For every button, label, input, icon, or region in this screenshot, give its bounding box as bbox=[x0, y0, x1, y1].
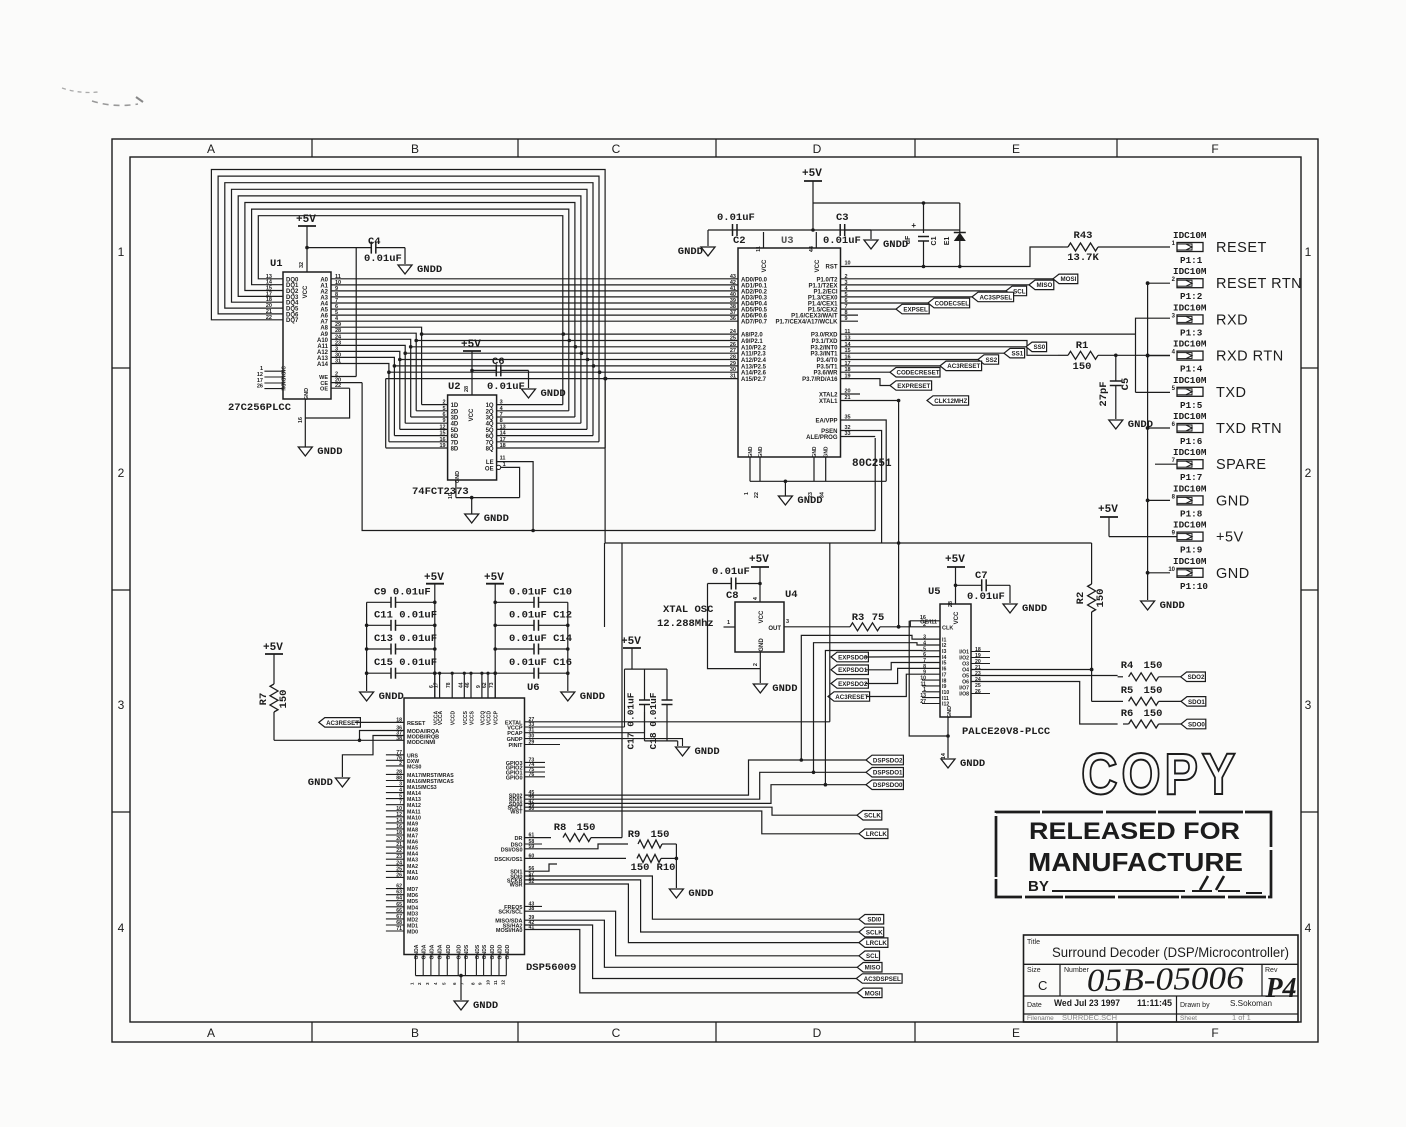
svg-text:7D: 7D bbox=[451, 440, 459, 446]
svg-text:BY: BY bbox=[1028, 878, 1049, 895]
svg-text:SDI0: SDI0 bbox=[867, 917, 881, 924]
svg-text:150: 150 bbox=[1144, 660, 1163, 672]
svg-text:LE: LE bbox=[486, 460, 494, 466]
pld U5 PALCE20V8-PLCC body bbox=[928, 586, 1051, 738]
svg-text:OE: OE bbox=[320, 387, 328, 393]
U1 ground pin wire bbox=[298, 388, 310, 447]
ground GNDD at IDC rail bbox=[1141, 600, 1185, 612]
svg-text:3D: 3D bbox=[451, 416, 459, 422]
svg-text:28: 28 bbox=[948, 601, 954, 607]
svg-text:R5: R5 bbox=[1121, 685, 1134, 697]
svg-text:2: 2 bbox=[1305, 466, 1312, 480]
svg-text:1Q: 1Q bbox=[486, 403, 494, 409]
svg-text:150: 150 bbox=[1144, 708, 1163, 720]
svg-text:19: 19 bbox=[439, 443, 445, 449]
svg-text:17: 17 bbox=[434, 682, 440, 688]
svg-text:R4: R4 bbox=[1121, 660, 1134, 672]
svg-text:P3.3/INT1: P3.3/INT1 bbox=[810, 352, 838, 358]
svg-text:150: 150 bbox=[651, 829, 670, 841]
svg-text:2: 2 bbox=[443, 400, 446, 406]
net label SCL bbox=[859, 951, 880, 961]
svg-text:SPARE: SPARE bbox=[1216, 457, 1267, 473]
capacitor C8 0.01uF bbox=[708, 566, 761, 669]
svg-text:AD6/P0.6: AD6/P0.6 bbox=[741, 314, 768, 320]
svg-text:VCC: VCC bbox=[762, 259, 768, 272]
svg-text:10: 10 bbox=[845, 261, 851, 267]
svg-text:VCC: VCC bbox=[469, 408, 475, 421]
svg-text:4D: 4D bbox=[451, 422, 459, 428]
svg-text:4: 4 bbox=[1305, 921, 1312, 935]
svg-text:C: C bbox=[612, 142, 621, 156]
svg-text:27: 27 bbox=[920, 699, 926, 705]
svg-text:75: 75 bbox=[872, 612, 885, 624]
svg-text:2: 2 bbox=[399, 761, 402, 767]
svg-text:5: 5 bbox=[399, 794, 402, 800]
svg-text:P3.1/TXD: P3.1/TXD bbox=[811, 339, 838, 345]
svg-text:I/O8: I/O8 bbox=[959, 692, 969, 698]
svg-text:64: 64 bbox=[396, 896, 402, 902]
svg-text:P3.7/RD/A16: P3.7/RD/A16 bbox=[802, 377, 838, 383]
svg-text:TXD: TXD bbox=[1216, 385, 1247, 401]
svg-text:05B-05006: 05B-05006 bbox=[1086, 959, 1244, 998]
resistor R8 150 bbox=[515, 543, 622, 842]
ground GNDD at C3 bbox=[864, 239, 908, 251]
capacitor C4 0.01uF bbox=[307, 236, 405, 265]
svg-text:14: 14 bbox=[500, 431, 507, 437]
svg-text:SURRDEC.SCH: SURRDEC.SCH bbox=[1062, 1013, 1117, 1022]
svg-text:GND: GND bbox=[748, 446, 754, 458]
svg-text:R43: R43 bbox=[1074, 230, 1093, 242]
svg-text:AD4/P0.4: AD4/P0.4 bbox=[741, 302, 768, 308]
svg-text:DSPSDO2: DSPSDO2 bbox=[873, 757, 903, 764]
svg-text:+5V: +5V bbox=[621, 636, 641, 648]
svg-text:MA5: MA5 bbox=[407, 846, 418, 852]
svg-text:VCCQ: VCCQ bbox=[480, 711, 486, 726]
svg-text:MOSI: MOSI bbox=[1060, 276, 1076, 283]
net label AC3RESET at U6 bbox=[319, 718, 404, 728]
svg-text:+5V: +5V bbox=[749, 554, 769, 566]
svg-text:3: 3 bbox=[500, 400, 503, 406]
U3 port3 pin labels bbox=[802, 329, 851, 383]
U6 VCC top pins bbox=[429, 672, 500, 726]
svg-text:AC3RESET: AC3RESET bbox=[835, 694, 868, 701]
svg-text:RESET: RESET bbox=[1216, 240, 1267, 256]
net label SDO1 bbox=[1181, 697, 1206, 707]
diode E1 bbox=[944, 203, 966, 268]
wire SPARE stub bbox=[1155, 463, 1177, 465]
svg-text:DSP56009: DSP56009 bbox=[526, 962, 576, 974]
wire RXD jog bbox=[1136, 318, 1171, 392]
svg-text:CODECRESET: CODECRESET bbox=[897, 370, 940, 377]
svg-text:6: 6 bbox=[443, 412, 446, 418]
svg-text:IDC10M: IDC10M bbox=[1173, 483, 1207, 494]
net label EXPSEL bbox=[896, 304, 929, 314]
net label MOSI bbox=[1053, 274, 1078, 284]
svg-text:GNDD: GNDD bbox=[1128, 419, 1153, 431]
svg-text:Size: Size bbox=[1027, 967, 1041, 974]
svg-text:A10/P2.2: A10/P2.2 bbox=[741, 345, 767, 351]
svg-text:COPY: COPY bbox=[1081, 742, 1239, 807]
svg-text:P1:9: P1:9 bbox=[1180, 545, 1203, 556]
svg-text:0.01uF C10: 0.01uF C10 bbox=[509, 586, 572, 598]
svg-text:IDC10M: IDC10M bbox=[1173, 266, 1207, 277]
svg-text:MA7: MA7 bbox=[407, 834, 418, 840]
svg-text:P3.0/RXD: P3.0/RXD bbox=[811, 333, 838, 339]
svg-text:P4: P4 bbox=[1264, 973, 1296, 1004]
svg-text:AD3/P0.3: AD3/P0.3 bbox=[741, 295, 768, 301]
svg-text:MD7: MD7 bbox=[407, 887, 418, 893]
svg-text:C11 0.01uF: C11 0.01uF bbox=[374, 609, 437, 621]
svg-text:12: 12 bbox=[500, 979, 505, 985]
svg-text:MISO: MISO bbox=[1036, 282, 1052, 289]
svg-text:R9: R9 bbox=[628, 829, 641, 841]
svg-text:CLK: CLK bbox=[942, 626, 953, 632]
svg-text:1: 1 bbox=[744, 492, 750, 495]
svg-text:7: 7 bbox=[500, 412, 503, 418]
handwritten drawing number bbox=[1086, 959, 1244, 998]
svg-text:RXD RTN: RXD RTN bbox=[1216, 349, 1284, 365]
svg-text:GNDS: GNDS bbox=[464, 944, 470, 959]
svg-text:P3.2/INT0: P3.2/INT0 bbox=[810, 345, 838, 351]
net label SDO0 bbox=[1181, 719, 1206, 729]
power +5V at U2 bbox=[461, 339, 481, 421]
svg-text:A10: A10 bbox=[317, 338, 329, 344]
svg-text:RESET: RESET bbox=[407, 721, 426, 727]
power +5V rail above U3 bbox=[708, 168, 960, 232]
svg-text:GNDD: GNDD bbox=[505, 944, 511, 959]
svg-text:U1: U1 bbox=[270, 258, 283, 270]
svg-text:C18 0.01uF: C18 0.01uF bbox=[648, 692, 659, 749]
svg-text:GND: GND bbox=[812, 446, 818, 458]
svg-text:17: 17 bbox=[500, 437, 506, 443]
ground GNDD at MODB bbox=[308, 777, 350, 789]
svg-text:TXD RTN: TXD RTN bbox=[1216, 421, 1282, 437]
wire MODC net bbox=[274, 731, 404, 743]
latch U2 74FCT2373 body bbox=[412, 381, 497, 498]
svg-text:GNDD: GNDD bbox=[308, 777, 333, 789]
svg-text:GNDA: GNDA bbox=[438, 944, 444, 959]
svg-text:AD7/P0.7: AD7/P0.7 bbox=[741, 320, 768, 326]
svg-text:IDC10M: IDC10M bbox=[1173, 556, 1207, 567]
svg-text:1: 1 bbox=[727, 620, 730, 626]
U1 DQ pin labels bbox=[266, 274, 299, 324]
eprom U1 27C256PLCC body bbox=[228, 258, 331, 414]
svg-text:P1:4: P1:4 bbox=[1180, 364, 1203, 375]
svg-text:AC3DSPSEL: AC3DSPSEL bbox=[864, 976, 901, 983]
ground GNDD at GNDP bbox=[676, 746, 720, 758]
net label SDI0 bbox=[859, 915, 884, 925]
U3 VCC pins bbox=[756, 232, 821, 272]
svg-text:C7: C7 bbox=[975, 570, 988, 582]
power +5V at U4 bbox=[749, 554, 769, 623]
svg-text:11: 11 bbox=[500, 456, 506, 462]
svg-text:DR: DR bbox=[515, 836, 523, 842]
svg-text:Sheet: Sheet bbox=[1180, 1015, 1197, 1022]
wire bus A8-A15/P2 rows bbox=[386, 332, 738, 447]
wire CLK12MHZ net bbox=[841, 399, 901, 627]
ground GNDD below U2 bbox=[465, 513, 509, 525]
svg-text:44: 44 bbox=[809, 245, 815, 252]
ground GNDD at C6 bbox=[522, 388, 566, 400]
resistor R5 150 bbox=[1092, 685, 1181, 705]
power +5V at U5 bbox=[945, 554, 965, 624]
svg-text:A0: A0 bbox=[320, 277, 328, 283]
svg-text:P1:1: P1:1 bbox=[1180, 255, 1203, 266]
svg-text:GPIO0: GPIO0 bbox=[506, 775, 523, 781]
svg-text:MA17/MRST/MRAS: MA17/MRST/MRAS bbox=[407, 773, 454, 779]
svg-text:P1:8: P1:8 bbox=[1180, 508, 1203, 519]
resistors R9 R10 bbox=[494, 829, 678, 888]
wire RXD net bbox=[841, 333, 1136, 335]
svg-text:E: E bbox=[1012, 142, 1020, 156]
svg-text:14: 14 bbox=[941, 752, 947, 759]
svg-text:SCK/SCL: SCK/SCL bbox=[498, 910, 523, 916]
frame zone labels bbox=[118, 142, 1312, 1040]
svg-text:RELEASED FOR: RELEASED FOR bbox=[1029, 818, 1240, 845]
wire RST net bbox=[826, 247, 1064, 271]
svg-text:IDC10M: IDC10M bbox=[1173, 375, 1207, 386]
svg-text:36: 36 bbox=[730, 316, 736, 322]
svg-text:EXPSDO0: EXPSDO0 bbox=[838, 654, 868, 661]
U3 ground pins bbox=[744, 446, 886, 498]
svg-text:SDO0: SDO0 bbox=[1188, 721, 1205, 728]
capacitor bank C10 C12 C14 C16 bbox=[493, 584, 572, 698]
svg-text:IDC10M: IDC10M bbox=[1173, 411, 1207, 422]
title block bbox=[1024, 935, 1299, 1022]
svg-text:R7: R7 bbox=[258, 693, 270, 706]
svg-text:16: 16 bbox=[920, 615, 926, 621]
svg-text:A12/P2.4: A12/P2.4 bbox=[741, 358, 767, 364]
svg-text:+5V: +5V bbox=[802, 168, 822, 180]
U1 address pin labels bbox=[317, 274, 342, 368]
svg-text:GNDD: GNDD bbox=[484, 513, 509, 525]
svg-text:MD5: MD5 bbox=[407, 899, 418, 905]
svg-text:A15/P2.7: A15/P2.7 bbox=[741, 377, 767, 383]
svg-text:PINIT: PINIT bbox=[508, 743, 523, 749]
svg-text:ALE/PROG: ALE/PROG bbox=[806, 435, 838, 441]
net label CLK12MHZ bbox=[927, 396, 969, 405]
svg-text:150: 150 bbox=[631, 862, 650, 874]
U4 pins bbox=[724, 619, 790, 683]
svg-text:62: 62 bbox=[396, 884, 402, 890]
svg-text:26: 26 bbox=[257, 384, 263, 390]
svg-text:VCCA: VCCA bbox=[438, 711, 444, 726]
svg-text:E: E bbox=[1012, 1026, 1020, 1040]
svg-text:GND: GND bbox=[824, 446, 830, 458]
svg-text:6D: 6D bbox=[451, 434, 459, 440]
svg-text:MD2: MD2 bbox=[407, 917, 418, 923]
svg-text:A: A bbox=[207, 142, 215, 156]
svg-text:U4: U4 bbox=[785, 589, 798, 601]
svg-text:P1.4/CEX1: P1.4/CEX1 bbox=[808, 302, 838, 308]
svg-text:P1:2: P1:2 bbox=[1180, 291, 1203, 302]
ground GNDD left cap bank bbox=[360, 691, 404, 703]
svg-text:A4: A4 bbox=[320, 302, 328, 308]
wire host interface nets bbox=[495, 901, 859, 993]
resistor R7 150 bbox=[258, 642, 290, 740]
svg-text:P1.7/CEX4/A17/WCLK: P1.7/CEX4/A17/WCLK bbox=[775, 320, 838, 326]
svg-text:Surround Decoder (DSP/Microcon: Surround Decoder (DSP/Microcontroller) bbox=[1052, 945, 1289, 960]
wire DSPSDO1 to U5 bbox=[814, 643, 941, 773]
svg-text:23: 23 bbox=[396, 854, 402, 860]
svg-text:GND: GND bbox=[304, 388, 310, 400]
svg-text:GND: GND bbox=[758, 446, 764, 458]
U6 gpio pins bbox=[506, 757, 545, 781]
wire P3.7 stub bbox=[841, 379, 891, 386]
svg-text:SDO2: SDO2 bbox=[1188, 674, 1205, 681]
svg-text:18: 18 bbox=[396, 830, 402, 836]
svg-text:C1: C1 bbox=[931, 236, 938, 245]
svg-text:MA13: MA13 bbox=[407, 797, 421, 803]
svg-text:U5: U5 bbox=[928, 586, 941, 598]
svg-text:GNDD: GNDD bbox=[473, 1000, 498, 1012]
net label SDO2 bbox=[1181, 672, 1206, 682]
svg-text:74FCT2373: 74FCT2373 bbox=[412, 486, 469, 498]
svg-text:3: 3 bbox=[118, 698, 125, 712]
svg-text:A14/P2.6: A14/P2.6 bbox=[741, 371, 767, 377]
svg-text:RST: RST bbox=[826, 265, 838, 271]
resistor R2 150 bbox=[1075, 543, 1107, 669]
net label DSPSDO1 bbox=[866, 768, 903, 778]
svg-text:GNDS: GNDS bbox=[482, 944, 488, 959]
svg-text:A9/P2.1: A9/P2.1 bbox=[741, 339, 763, 345]
svg-text:GNDD: GNDD bbox=[678, 246, 703, 258]
svg-text:8: 8 bbox=[500, 418, 503, 424]
svg-text:44: 44 bbox=[458, 682, 464, 688]
wire P3.3 stub bbox=[841, 352, 1005, 354]
svg-text:MA3: MA3 bbox=[407, 858, 418, 864]
svg-text:16: 16 bbox=[439, 437, 445, 443]
ground GNDD at C7 bbox=[1003, 603, 1047, 615]
svg-text:+5V: +5V bbox=[296, 214, 316, 226]
ground GNDD below U3 bbox=[778, 495, 822, 507]
svg-text:WST: WST bbox=[510, 810, 523, 816]
svg-text:GNDD: GNDD bbox=[688, 888, 713, 900]
svg-text:46: 46 bbox=[465, 682, 471, 688]
svg-text:RESET RTN: RESET RTN bbox=[1216, 276, 1302, 292]
svg-text:XTAL OSC: XTAL OSC bbox=[663, 604, 714, 616]
svg-text:1: 1 bbox=[1305, 245, 1312, 259]
svg-text:0.01uF: 0.01uF bbox=[364, 253, 402, 265]
net label EXPRESET bbox=[890, 381, 932, 390]
svg-text:VCCS: VCCS bbox=[463, 710, 469, 725]
svg-text:DSCK/OS1: DSCK/OS1 bbox=[494, 857, 522, 863]
U6 ground pins bbox=[410, 944, 511, 1000]
ground GNDD at C5 bbox=[1109, 419, 1153, 431]
wire DSPSDO2 to U5 bbox=[801, 635, 940, 760]
svg-text:A11/P2.3: A11/P2.3 bbox=[741, 352, 766, 358]
U1 NC pins bbox=[257, 366, 288, 391]
svg-text:VCC: VCC bbox=[815, 259, 821, 272]
svg-text:VCCP: VCCP bbox=[494, 710, 500, 725]
resistor R3 75 bbox=[784, 612, 940, 631]
capacitor bank C9 C11 C13 C15 bbox=[365, 584, 437, 698]
net label SS1 bbox=[1004, 348, 1025, 358]
svg-text:R10: R10 bbox=[657, 862, 676, 874]
svg-text:4Q: 4Q bbox=[486, 422, 494, 428]
svg-text:AC3SPSEL: AC3SPSEL bbox=[979, 294, 1012, 301]
svg-text:DSI/OS0: DSI/OS0 bbox=[501, 847, 523, 853]
svg-text:32: 32 bbox=[299, 262, 305, 268]
svg-text:8D: 8D bbox=[451, 447, 459, 453]
svg-text:5: 5 bbox=[443, 406, 446, 412]
svg-text:40: 40 bbox=[730, 292, 736, 298]
svg-text:CODECSEL: CODECSEL bbox=[935, 300, 970, 307]
svg-text:C15 0.01uF: C15 0.01uF bbox=[374, 657, 437, 669]
net label EXPSDO0 bbox=[831, 652, 940, 662]
svg-text:5Q: 5Q bbox=[486, 428, 494, 434]
svg-text:VCC: VCC bbox=[759, 610, 765, 623]
svg-text:A3: A3 bbox=[320, 295, 328, 301]
svg-text:62: 62 bbox=[482, 682, 488, 688]
svg-text:1 of 1: 1 of 1 bbox=[1232, 1013, 1251, 1022]
svg-text:P3.6/WR: P3.6/WR bbox=[813, 371, 838, 377]
svg-text:0.01uF C16: 0.01uF C16 bbox=[509, 657, 572, 669]
svg-text:+5V: +5V bbox=[1098, 504, 1118, 516]
U5 ground wire bbox=[909, 621, 953, 759]
svg-text:28: 28 bbox=[464, 386, 470, 392]
svg-text:37: 37 bbox=[730, 310, 736, 316]
svg-text:22: 22 bbox=[335, 383, 341, 389]
U1 control pins and ALE bus wire bbox=[305, 248, 875, 531]
svg-text:XTAL1: XTAL1 bbox=[819, 399, 838, 405]
svg-text:C5: C5 bbox=[1120, 378, 1132, 391]
svg-text:150: 150 bbox=[577, 822, 596, 834]
svg-text:11: 11 bbox=[493, 980, 498, 985]
svg-text:D: D bbox=[813, 142, 822, 156]
svg-text:P1:10: P1:10 bbox=[1180, 581, 1208, 592]
power +5V at P1:9 bbox=[1098, 504, 1177, 537]
U6 mode pins bbox=[386, 718, 439, 771]
U3 left pin labels bbox=[730, 274, 768, 383]
net label SCL bbox=[1006, 286, 1027, 296]
U5 input pins bbox=[920, 635, 949, 708]
net label AC3SPSEL bbox=[972, 292, 1014, 302]
svg-text:0.01uF: 0.01uF bbox=[712, 566, 750, 578]
svg-text:+5V: +5V bbox=[484, 572, 504, 584]
svg-text:+5V: +5V bbox=[461, 339, 481, 351]
wire PSEN vertical bbox=[841, 431, 882, 544]
svg-text:P3.4/T0: P3.4/T0 bbox=[816, 358, 838, 364]
svg-text:SDO1: SDO1 bbox=[1188, 699, 1205, 706]
wire bus A8-A14 staircase to latch bbox=[331, 327, 423, 442]
svg-text:SS1: SS1 bbox=[1011, 351, 1023, 358]
svg-text:MISO: MISO bbox=[865, 965, 881, 972]
svg-text:GNDA: GNDA bbox=[429, 944, 435, 959]
svg-text:A13/P2.5: A13/P2.5 bbox=[741, 364, 767, 370]
wire SCKT WST nets bbox=[508, 802, 859, 834]
wire P3.4 stub bbox=[841, 359, 979, 361]
svg-text:A13: A13 bbox=[317, 356, 329, 362]
wire P3.5 stub bbox=[841, 365, 941, 367]
svg-text:3: 3 bbox=[399, 782, 402, 788]
U2 latch-enable and output-enable pins bbox=[485, 456, 535, 533]
svg-text:GNDA: GNDA bbox=[422, 944, 428, 959]
svg-text:11:11:45: 11:11:45 bbox=[1137, 998, 1172, 1008]
svg-text:Drawn by: Drawn by bbox=[1180, 1002, 1210, 1009]
capacitor C6 0.01uF bbox=[472, 356, 529, 393]
svg-text:+: + bbox=[911, 221, 916, 230]
svg-text:IDC10M: IDC10M bbox=[1173, 520, 1207, 531]
svg-text:AC3RESET: AC3RESET bbox=[947, 363, 980, 370]
U3 port1 pins bbox=[775, 274, 1053, 326]
oscillator U4 body bbox=[657, 589, 798, 652]
wire TXD to R1 bbox=[841, 341, 1059, 356]
svg-text:B: B bbox=[411, 142, 419, 156]
svg-text:SS0: SS0 bbox=[1033, 344, 1045, 351]
wire bus DQ0-DQ7 wrap-around loops bbox=[211, 170, 605, 449]
svg-text:0.01uF C12: 0.01uF C12 bbox=[509, 609, 572, 621]
